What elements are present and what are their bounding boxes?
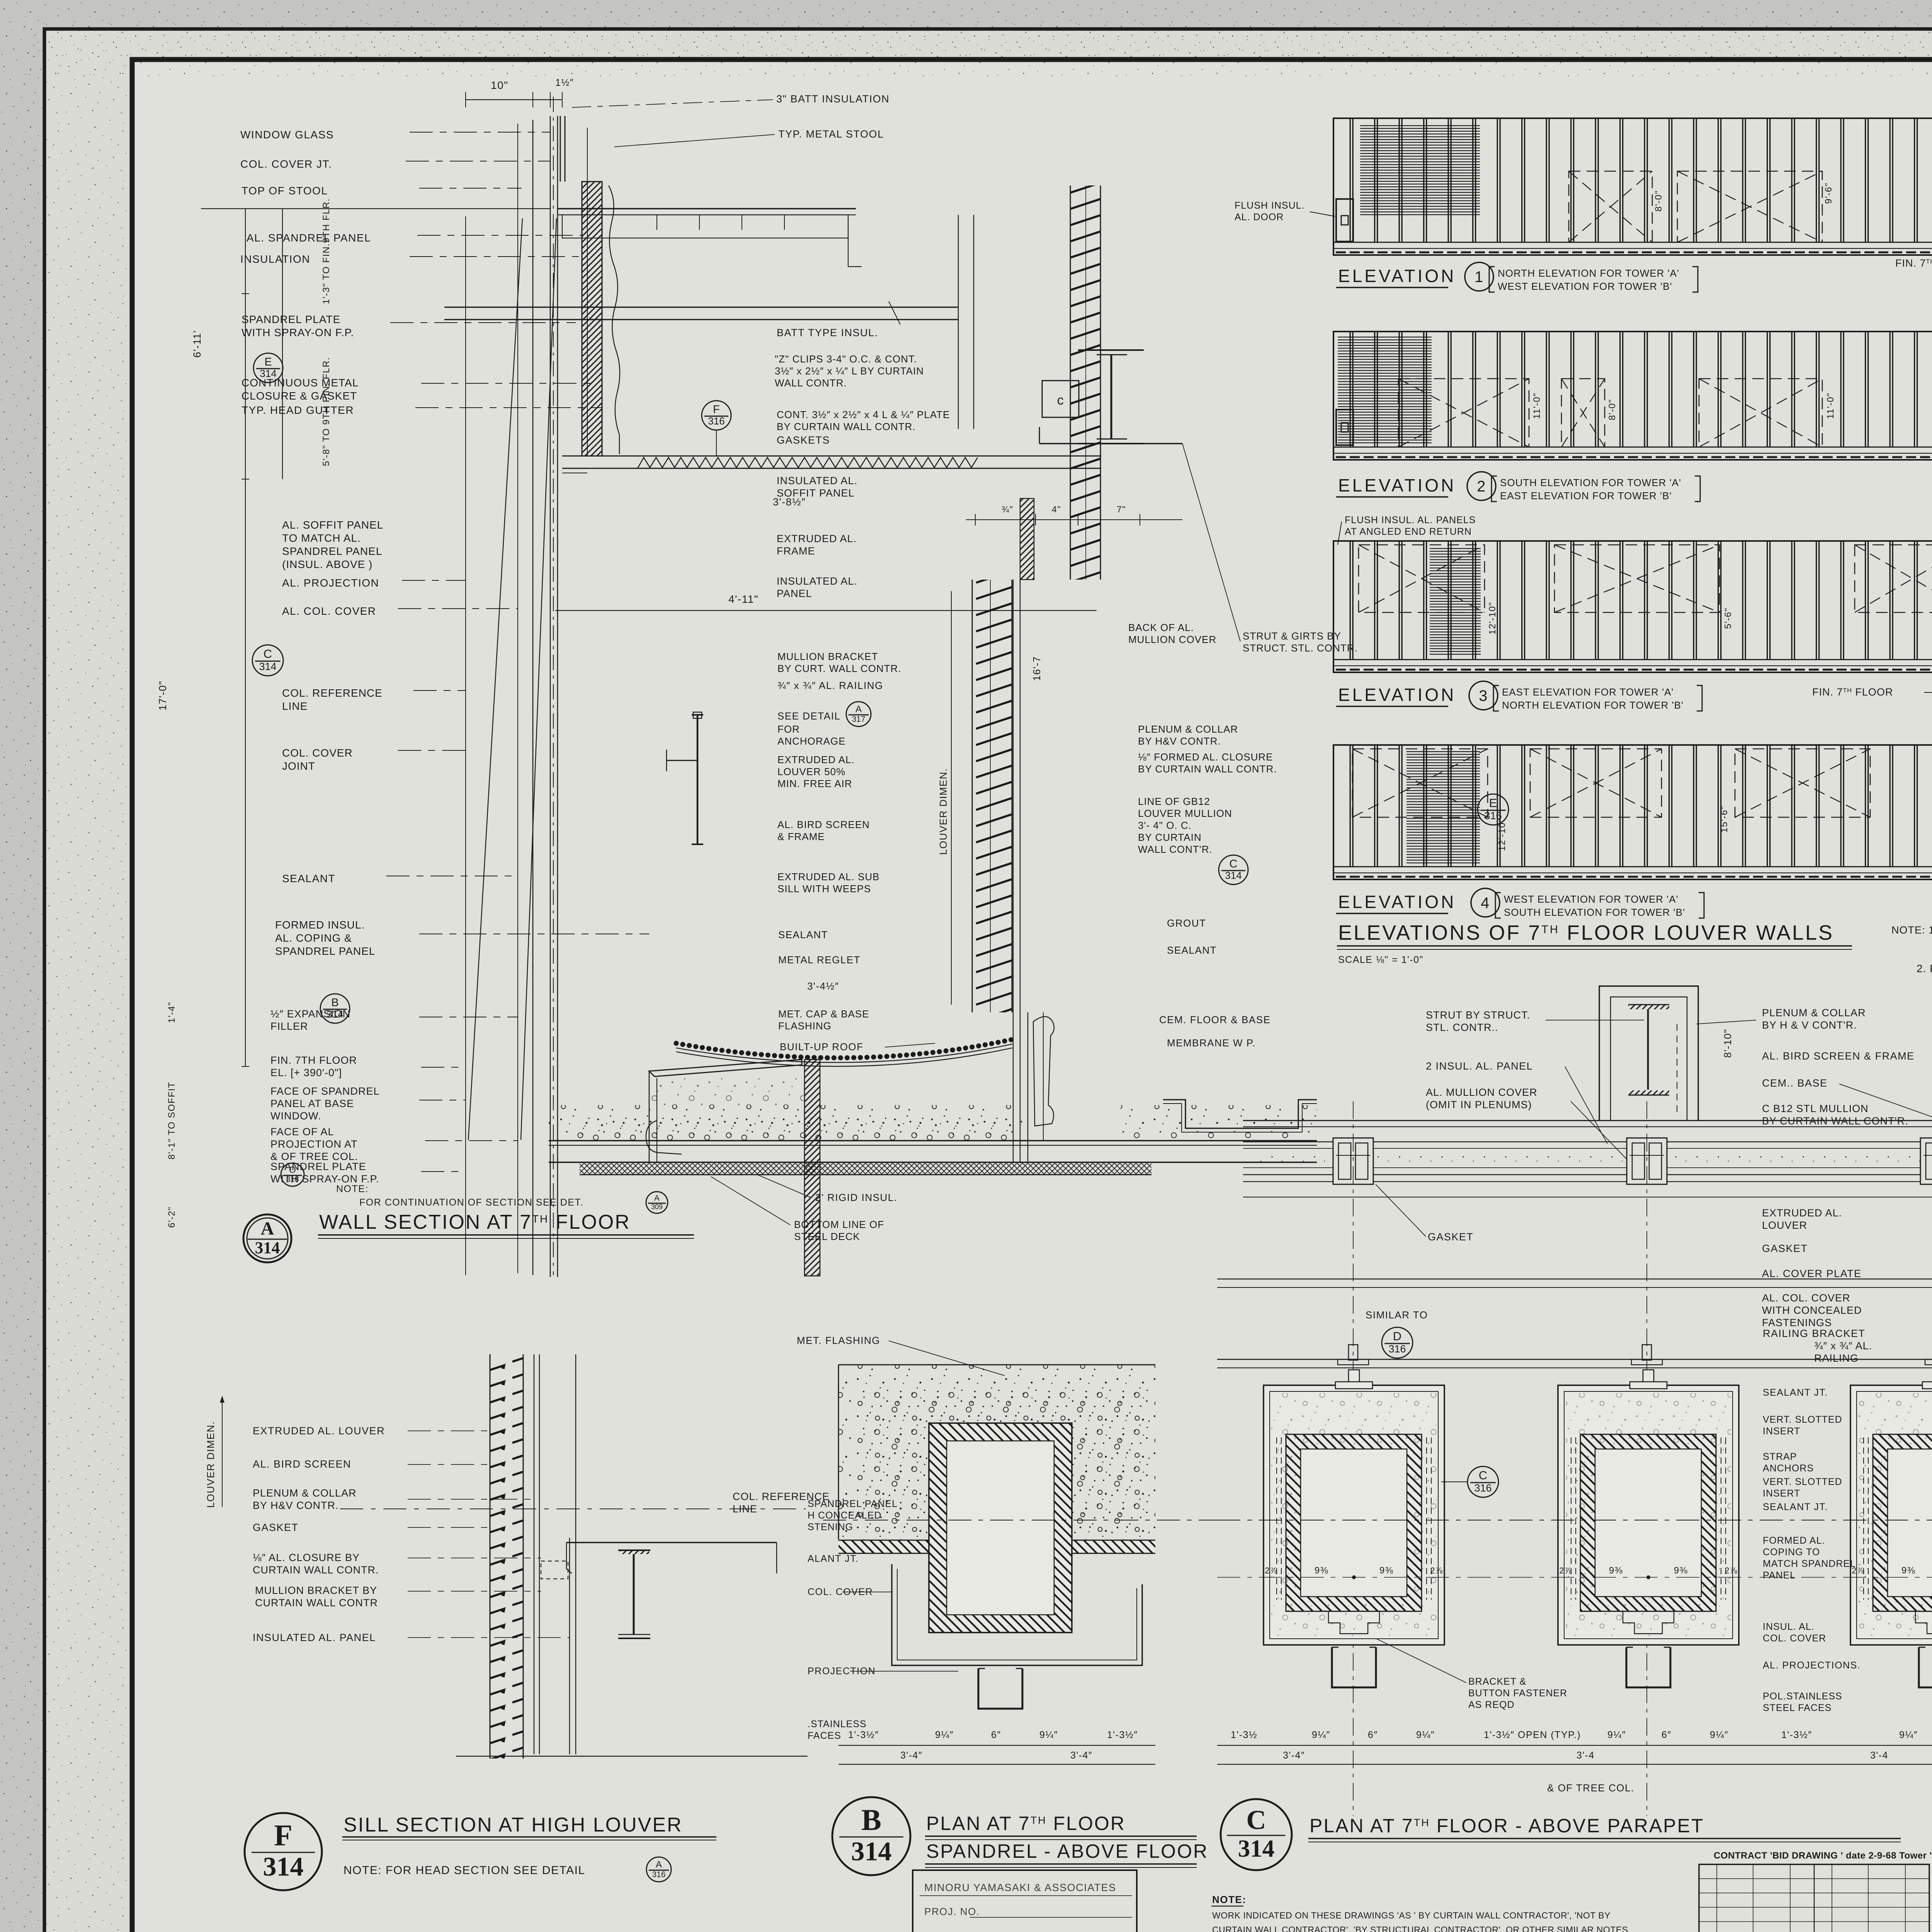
svg-text:318: 318 xyxy=(286,1175,299,1184)
svg-text:MATCH SPANDREL: MATCH SPANDREL xyxy=(1763,1558,1856,1569)
svg-text:7": 7" xyxy=(1117,504,1126,514)
svg-text:309: 309 xyxy=(651,1203,663,1211)
svg-text:EAST ELEVATION FOR TOWER 'B: EAST ELEVATION FOR TOWER 'B' xyxy=(1500,490,1672,502)
detail circle F/316 xyxy=(702,401,731,430)
svg-text:PANEL: PANEL xyxy=(1763,1570,1796,1581)
louver blade strip (section) xyxy=(972,580,1012,1012)
svg-text:SCALE ⅛" = 1'-0": SCALE ⅛" = 1'-0" xyxy=(1338,954,1423,965)
svg-text:FIN. 7TH FLOOR: FIN. 7TH FLOOR xyxy=(270,1054,357,1066)
big detail circle F/314 xyxy=(245,1813,322,1890)
vertical line down from louver to parapet xyxy=(1027,1012,1028,1162)
sealant blob / cap flashing center xyxy=(1033,1017,1054,1126)
svg-text:SOUTH ELEVATION FOR TOWER ': SOUTH ELEVATION FOR TOWER 'B' xyxy=(1504,906,1685,918)
svg-text:9¼″: 9¼″ xyxy=(1312,1730,1330,1740)
svg-text:6″: 6″ xyxy=(991,1730,1001,1740)
received stamp box xyxy=(913,1870,1137,1932)
svg-text:GASKET: GASKET xyxy=(1428,1231,1474,1243)
F small bracket near louver xyxy=(541,1561,568,1579)
svg-text:BATT TYPE INSUL.: BATT TYPE INSUL. xyxy=(777,327,878,338)
svg-text:FASTENINGS: FASTENINGS xyxy=(1762,1317,1832,1328)
svg-text:9⅜: 9⅜ xyxy=(1901,1565,1915,1576)
svg-text:9¼″: 9¼″ xyxy=(1710,1730,1728,1740)
svg-text:2. FOR KEY PLAN SEE DWG A: 2. FOR KEY PLAN SEE DWG A-AB - 316 xyxy=(1917,963,1932,975)
svg-text:3'-4″: 3'-4″ xyxy=(900,1750,922,1761)
svg-text:1'-3" TO FIN.9TH FLR.: 1'-3" TO FIN.9TH FLR. xyxy=(321,198,332,304)
louver dimension arrows xyxy=(951,591,952,1005)
svg-text:8'-1" TO SOFFIT: 8'-1" TO SOFFIT xyxy=(167,1082,177,1159)
svg-text:314: 314 xyxy=(851,1837,892,1867)
detail circle A/309 xyxy=(646,1192,668,1213)
svg-text:EL. [+ 390'-0"]: EL. [+ 390'-0"] xyxy=(270,1067,342,1078)
svg-text:BY H&V CONTR.: BY H&V CONTR. xyxy=(1138,735,1221,747)
svg-text:3'-4: 3'-4 xyxy=(1870,1750,1888,1761)
svg-text:& FRAME: & FRAME xyxy=(777,831,825,842)
svg-text:C: C xyxy=(1479,1469,1487,1482)
svg-text:TYP. METAL STOOL: TYP. METAL STOOL xyxy=(778,128,884,140)
svg-text:CURTAIN WALL CONTR.: CURTAIN WALL CONTR. xyxy=(253,1564,379,1576)
svg-text:F: F xyxy=(713,403,720,416)
svg-text:B: B xyxy=(331,997,338,1009)
svg-text:BUTTON FASTENER: BUTTON FASTENER xyxy=(1468,1688,1567,1699)
svg-text:1'-3½″: 1'-3½″ xyxy=(1107,1730,1138,1740)
svg-text:EAST ELEVATION FOR TOWER 'A: EAST ELEVATION FOR TOWER 'A' xyxy=(1502,686,1673,698)
svg-text:BY CURTAIN WALL CONTR.: BY CURTAIN WALL CONTR. xyxy=(777,421,916,432)
svg-text:10": 10" xyxy=(491,79,509,91)
window glass lines at top xyxy=(560,116,561,182)
svg-text:2⅞: 2⅞ xyxy=(1725,1566,1738,1575)
middle plan: plenum box with I-beam strut xyxy=(1599,986,1698,1121)
svg-text:GROUT: GROUT xyxy=(1167,917,1206,929)
elevation band 2 xyxy=(1333,332,1932,460)
svg-text:1: 1 xyxy=(1475,269,1484,286)
svg-text:F: F xyxy=(274,1818,293,1852)
right side vertical plenum lines xyxy=(958,215,959,429)
svg-text:COL. REFERENCE: COL. REFERENCE xyxy=(282,687,383,699)
svg-text:CONTINUOUS METAL: CONTINUOUS METAL xyxy=(241,377,359,389)
lower horizontal soffit panel with batt insulation zigzag xyxy=(562,456,1101,457)
dim line 3-8half row xyxy=(966,519,1182,520)
svg-text:SPANDREL PANEL: SPANDREL PANEL xyxy=(808,1498,898,1509)
svg-text:METAL REGLET: METAL REGLET xyxy=(778,954,861,966)
cem floor and base trough right xyxy=(1163,1100,1317,1128)
svg-text:3" BATT INSULATION: 3" BATT INSULATION xyxy=(776,93,889,105)
svg-text:3'- 4" O. C.: 3'- 4" O. C. xyxy=(1138,820,1192,831)
svg-text:POL.STAINLESS: POL.STAINLESS xyxy=(1763,1691,1842,1702)
wall section A: long vertical construction lines xyxy=(465,216,466,1275)
svg-text:2 INSUL. AL. PANEL: 2 INSUL. AL. PANEL xyxy=(1426,1060,1533,1072)
svg-text:SOUTH ELEVATION FOR TOWER ': SOUTH ELEVATION FOR TOWER 'A' xyxy=(1500,477,1681,488)
svg-text:GASKET: GASKET xyxy=(253,1522,299,1533)
svg-text:(INSUL. ABOVE ): (INSUL. ABOVE ) xyxy=(282,558,372,570)
svg-text:FOR: FOR xyxy=(777,723,800,735)
F sill section: louver blade strip xyxy=(490,1354,523,1759)
svg-text:STRAP: STRAP xyxy=(1763,1451,1797,1462)
svg-text:LINE OF GB12: LINE OF GB12 xyxy=(1138,796,1210,807)
svg-text:C: C xyxy=(264,647,272,661)
head gutter hook at panel base xyxy=(646,1121,682,1154)
svg-text:EXTRUDED AL.: EXTRUDED AL. xyxy=(1762,1207,1842,1219)
svg-text:FLUSH INSUL. AL. PANELS: FLUSH INSUL. AL. PANELS xyxy=(1345,515,1476,526)
svg-text:SPANDREL PLATE: SPANDREL PLATE xyxy=(241,313,340,325)
svg-text:WITH SPRAY-ON F.P.: WITH SPRAY-ON F.P. xyxy=(241,327,354,338)
small hatched sill bar below soffit xyxy=(1020,498,1034,580)
plan B concrete mass xyxy=(838,1365,1155,1539)
svg-text:314: 314 xyxy=(263,1852,304,1882)
svg-text:BACK OF AL.: BACK OF AL. xyxy=(1128,622,1194,633)
svg-text:⅛″ AL. CLOSURE BY: ⅛″ AL. CLOSURE BY xyxy=(253,1552,360,1563)
svg-text:EXTRUDED AL.: EXTRUDED AL. xyxy=(777,533,857,544)
svg-text:AL. COL. COVER: AL. COL. COVER xyxy=(1762,1292,1850,1304)
svg-text:MINORU YAMASAKI & ASSOCIATES: MINORU YAMASAKI & ASSOCIATES xyxy=(924,1882,1116,1893)
svg-text:E: E xyxy=(1489,796,1497,810)
svg-text:316: 316 xyxy=(1474,1482,1492,1494)
svg-text:C B12 STL MULLION: C B12 STL MULLION xyxy=(1762,1103,1869,1114)
svg-text:2⅞: 2⅞ xyxy=(1559,1566,1572,1575)
svg-text:AL. COPING &: AL. COPING & xyxy=(275,932,352,944)
detail circle A/317 xyxy=(846,702,871,726)
svg-text:SEE DETAIL: SEE DETAIL xyxy=(777,710,840,722)
built-up roof dotted gravel arc xyxy=(676,1039,1012,1058)
svg-text:317: 317 xyxy=(852,715,865,724)
svg-text:6″: 6″ xyxy=(1368,1730,1378,1740)
svg-text:EXTRUDED AL. SUB: EXTRUDED AL. SUB xyxy=(777,871,880,883)
svg-text:BY CURT. WALL CONTR.: BY CURT. WALL CONTR. xyxy=(777,663,901,674)
svg-text:BOTTOM LINE OF: BOTTOM LINE OF xyxy=(794,1219,884,1230)
svg-text:B: B xyxy=(861,1803,881,1837)
big detail circle B/314 xyxy=(832,1797,910,1875)
svg-text:2⅞: 2⅞ xyxy=(1265,1566,1278,1575)
svg-text:11'-0": 11'-0" xyxy=(1532,393,1542,419)
F I-beam xyxy=(618,1549,650,1551)
svg-text:3: 3 xyxy=(1479,687,1488,704)
louver vertical continues below xyxy=(1013,580,1014,1163)
svg-text:WALL SECTION AT 7TH FLOOR: WALL SECTION AT 7TH FLOOR xyxy=(319,1211,631,1233)
svg-text:15'-6": 15'-6" xyxy=(1719,806,1730,833)
svg-text:316: 316 xyxy=(1484,810,1502,821)
svg-text:CLOSURE & GASKET: CLOSURE & GASKET xyxy=(241,390,357,402)
elevation band 1 xyxy=(1333,118,1932,255)
svg-text:1'-4": 1'-4" xyxy=(167,1002,177,1023)
svg-text:WORK INDICATED ON THESE DR: WORK INDICATED ON THESE DRAWINGS 'AS ' B… xyxy=(1212,1910,1611,1920)
svg-text:MEMBRANE W P.: MEMBRANE W P. xyxy=(1167,1037,1256,1049)
svg-text:CEM.. BASE: CEM.. BASE xyxy=(1762,1077,1828,1089)
centerlines dropping to plan C xyxy=(1353,1101,1354,1816)
svg-text:STEEL FACES: STEEL FACES xyxy=(1763,1702,1832,1713)
svg-text:PROJECTION AT: PROJECTION AT xyxy=(270,1138,358,1150)
svg-text:PLENUM & COLLAR: PLENUM & COLLAR xyxy=(1138,723,1238,735)
svg-text:(OMIT IN PLENUMS): (OMIT IN PLENUMS) xyxy=(1426,1099,1532,1111)
svg-text:PLENUM & COLLAR: PLENUM & COLLAR xyxy=(253,1487,357,1499)
svg-text:1'-3½: 1'-3½ xyxy=(1231,1730,1257,1740)
roof deck double lines xyxy=(549,1140,1317,1141)
svg-text:NOTE:: NOTE: xyxy=(336,1184,369,1194)
svg-text:¾″: ¾″ xyxy=(1002,504,1013,514)
svg-text:AL. SOFFIT PANEL: AL. SOFFIT PANEL xyxy=(282,519,383,531)
left vertical dimension lines xyxy=(245,209,246,1066)
insulation wavy outline right of panel xyxy=(609,185,620,454)
detail circle C/314 right xyxy=(1219,855,1248,884)
svg-text:FACE OF SPANDREL: FACE OF SPANDREL xyxy=(270,1085,380,1097)
svg-text:PROJ. NO.: PROJ. NO. xyxy=(924,1906,980,1917)
paper noise speckle (margins only, cheap) xyxy=(0,0,1932,60)
plan C detail circle C/316 xyxy=(1468,1466,1498,1497)
plan C dims xyxy=(1217,1745,1932,1746)
svg-text:9¼″: 9¼″ xyxy=(1039,1730,1058,1740)
girt angle below I-beam xyxy=(1039,443,1182,444)
elevation band 3 xyxy=(1333,541,1932,672)
svg-text:ELEVATION: ELEVATION xyxy=(1338,266,1456,286)
svg-text:316: 316 xyxy=(652,1870,665,1879)
svg-text:6'-11': 6'-11' xyxy=(191,330,203,357)
svg-text:316: 316 xyxy=(708,415,724,427)
svg-text:EXTRUDED AL.: EXTRUDED AL. xyxy=(777,754,855,765)
svg-text:1'-3½″ OPEN (TYP.): 1'-3½″ OPEN (TYP.) xyxy=(1484,1730,1581,1740)
detail circle E/316 on band 4 xyxy=(1478,794,1509,825)
svg-text:9⅜: 9⅜ xyxy=(1609,1565,1623,1576)
dimension 4-11 line xyxy=(555,610,1097,611)
svg-text:314: 314 xyxy=(259,661,276,672)
svg-text:VERT. SLOTTED: VERT. SLOTTED xyxy=(1763,1414,1842,1425)
svg-text:MET. CAP & BASE: MET. CAP & BASE xyxy=(778,1008,869,1020)
plenum collar box xyxy=(1042,381,1079,417)
svg-text:¾″ x ¾″ AL. RAILING: ¾″ x ¾″ AL. RAILING xyxy=(777,680,883,691)
svg-text:12'-10": 12'-10" xyxy=(1487,602,1498,635)
svg-text:MULLION COVER: MULLION COVER xyxy=(1128,634,1216,645)
svg-text:E: E xyxy=(264,356,272,368)
svg-text:A: A xyxy=(855,704,862,714)
plan C col ref dash line across xyxy=(1217,1520,1932,1520)
rigid insul cross-hatch strip xyxy=(580,1163,1151,1175)
svg-text:C: C xyxy=(1246,1805,1266,1835)
svg-text:CONT. 3½″ x 2½″ x 4 L & ¼″: CONT. 3½″ x 2½″ x 4 L & ¼″ PLATE xyxy=(777,409,950,420)
svg-text:COL. COVER JT.: COL. COVER JT. xyxy=(240,158,332,170)
svg-text:A: A xyxy=(261,1218,274,1239)
svg-text:5'-6": 5'-6" xyxy=(1723,607,1733,629)
svg-text:COL. COVER: COL. COVER xyxy=(282,747,353,759)
svg-text:D: D xyxy=(1393,1330,1401,1343)
middle plan: long louver wall band xyxy=(1243,1120,1932,1121)
detail circle O/318 xyxy=(281,1163,304,1186)
svg-text:MIN. FREE AIR: MIN. FREE AIR xyxy=(777,778,852,789)
svg-text:H CONCEALED: H CONCEALED xyxy=(808,1510,882,1521)
svg-text:FOR CONTINUATION OF SECTION: FOR CONTINUATION OF SECTION SEE DET. xyxy=(359,1197,583,1208)
svg-text:NORTH ELEVATION FOR TOWER ': NORTH ELEVATION FOR TOWER 'B' xyxy=(1502,699,1684,711)
svg-text:JOINT: JOINT xyxy=(282,760,315,772)
long rail lines above plan C xyxy=(1217,1279,1932,1279)
svg-text:ELEVATION: ELEVATION xyxy=(1338,685,1456,705)
F bottom sill line xyxy=(456,1756,808,1757)
svg-text:AL. PROJECTION: AL. PROJECTION xyxy=(282,577,379,589)
svg-text:PLAN AT 7TH FLOOR - ABOVE P: PLAN AT 7TH FLOOR - ABOVE PARAPET xyxy=(1310,1815,1704,1837)
railing T bracket xyxy=(697,715,699,844)
svg-text:LOUVER DIMEN.: LOUVER DIMEN. xyxy=(205,1421,216,1508)
svg-text:STL. CONTR..: STL. CONTR.. xyxy=(1426,1022,1498,1033)
svg-text:SILL SECTION AT HIGH LOUVE: SILL SECTION AT HIGH LOUVER xyxy=(344,1814,683,1836)
svg-text:FRAME: FRAME xyxy=(777,545,815,557)
svg-text:9¼″: 9¼″ xyxy=(935,1730,954,1740)
svg-text:STRUCT. STL. CONTR.: STRUCT. STL. CONTR. xyxy=(1243,642,1358,654)
svg-text:AL. BIRD SCREEN: AL. BIRD SCREEN xyxy=(777,819,870,830)
plan B column stub xyxy=(978,1668,1022,1709)
svg-text:BY CURTAIN WALL CONT'R.: BY CURTAIN WALL CONT'R. xyxy=(1762,1115,1908,1127)
svg-text:SEALANT JT.: SEALANT JT. xyxy=(1763,1387,1828,1398)
svg-text:STENING: STENING xyxy=(808,1522,853,1532)
svg-text:9¼″: 9¼″ xyxy=(1607,1730,1626,1740)
svg-text:316: 316 xyxy=(1388,1343,1406,1355)
svg-text:COL. COVER: COL. COVER xyxy=(1763,1633,1826,1644)
svg-text:ANCHORAGE: ANCHORAGE xyxy=(777,735,846,747)
F steel shelf top flange xyxy=(566,1542,777,1543)
big detail circle A/314 xyxy=(243,1214,291,1262)
svg-text:2' RIGID INSUL.: 2' RIGID INSUL. xyxy=(815,1192,897,1203)
concrete speckle at roof slab xyxy=(549,1105,1012,1141)
tapered column face slanted lines xyxy=(468,218,522,1140)
svg-text:WEST ELEVATION FOR TOWER 'A: WEST ELEVATION FOR TOWER 'A' xyxy=(1504,893,1679,905)
svg-text:TO MATCH AL.: TO MATCH AL. xyxy=(282,532,361,544)
svg-text:1½″: 1½″ xyxy=(555,77,574,88)
svg-text:FORMED AL.: FORMED AL. xyxy=(1763,1535,1825,1546)
svg-text:AL. BIRD SCREEN & FRAME: AL. BIRD SCREEN & FRAME xyxy=(1762,1050,1915,1062)
svg-text:MULLION BRACKET: MULLION BRACKET xyxy=(777,651,878,662)
svg-text:ELEVATION: ELEVATION xyxy=(1338,892,1456,912)
center dash line of column xyxy=(553,97,554,1275)
detail circle D/316 xyxy=(1382,1327,1413,1358)
svg-text:9¼″: 9¼″ xyxy=(1899,1730,1918,1740)
svg-text:4": 4" xyxy=(1052,504,1061,514)
svg-text:RAILING: RAILING xyxy=(1814,1352,1859,1364)
top of stool horizontal line xyxy=(201,208,550,209)
detail circle C/314 left xyxy=(252,645,283,676)
svg-text:c: c xyxy=(1057,393,1065,408)
svg-text:LOUVER DIMEN.: LOUVER DIMEN. xyxy=(937,768,949,855)
svg-text:ELEVATION: ELEVATION xyxy=(1338,475,1456,495)
svg-text:FILLER: FILLER xyxy=(270,1020,308,1032)
svg-text:2: 2 xyxy=(1477,478,1486,495)
parapet coping sloped top xyxy=(649,1060,802,1077)
F col ref dash line xyxy=(340,1509,806,1509)
svg-text:SEALANT JT.: SEALANT JT. xyxy=(1763,1502,1828,1512)
svg-text:MULLION BRACKET BY: MULLION BRACKET BY xyxy=(255,1585,377,1596)
svg-text:17'-0": 17'-0" xyxy=(157,680,168,711)
svg-text:½″ EXPANSION: ½″ EXPANSION xyxy=(270,1008,350,1020)
svg-text:PANEL AT BASE: PANEL AT BASE xyxy=(270,1098,354,1109)
svg-text:STEEL DECK: STEEL DECK xyxy=(794,1231,860,1242)
svg-text:WITH CONCEALED: WITH CONCEALED xyxy=(1762,1304,1862,1316)
svg-text:SPANDREL - ABOVE FLOOR: SPANDREL - ABOVE FLOOR xyxy=(926,1840,1208,1862)
svg-text:RAILING BRACKET: RAILING BRACKET xyxy=(1763,1328,1866,1339)
F vertical mullion lines xyxy=(534,1354,534,1754)
svg-text:FORMED INSUL.: FORMED INSUL. xyxy=(275,919,365,931)
svg-text:INSERT: INSERT xyxy=(1763,1426,1800,1437)
svg-text:O: O xyxy=(289,1165,296,1175)
svg-text:3'-4″: 3'-4″ xyxy=(1070,1750,1092,1761)
svg-text:4'-11": 4'-11" xyxy=(728,593,759,605)
svg-text:.STAINLESS: .STAINLESS xyxy=(808,1719,867,1730)
plan C three column units xyxy=(1264,1385,1444,1645)
svg-text:NOTE: FOR HEAD SECTION SEE: NOTE: FOR HEAD SECTION SEE DETAIL xyxy=(344,1864,585,1877)
svg-text:PLENUM & COLLAR: PLENUM & COLLAR xyxy=(1762,1007,1866,1019)
svg-text:1'-3½″: 1'-3½″ xyxy=(1781,1730,1812,1740)
svg-text:COPING TO: COPING TO xyxy=(1763,1547,1820,1558)
svg-text:12'-10": 12'-10" xyxy=(1497,818,1507,851)
svg-text:SEALANT: SEALANT xyxy=(778,929,828,940)
svg-text:FACES: FACES xyxy=(808,1730,841,1741)
svg-text:A: A xyxy=(654,1194,660,1203)
svg-text:SPANDREL PANEL: SPANDREL PANEL xyxy=(282,545,382,557)
svg-text:8'-0": 8'-0" xyxy=(1607,399,1617,420)
svg-text:WALL CONT'R.: WALL CONT'R. xyxy=(1138,844,1213,855)
svg-text:NOTE:: NOTE: xyxy=(1212,1894,1246,1905)
svg-text:PANEL: PANEL xyxy=(777,588,812,599)
svg-text:SPANDREL PANEL: SPANDREL PANEL xyxy=(275,945,375,957)
svg-text:CONTRACT 'BID DRAWING ' da: CONTRACT 'BID DRAWING ' date 2-9-68 Towe… xyxy=(1714,1850,1932,1861)
svg-text:SEALANT: SEALANT xyxy=(1167,944,1217,956)
svg-text:NORTH ELEVATION FOR TOWER ': NORTH ELEVATION FOR TOWER 'A' xyxy=(1498,267,1679,279)
svg-text:WALL CONTR.: WALL CONTR. xyxy=(775,377,847,389)
svg-text:ELEVATIONS OF 7TH FLOOR LOU: ELEVATIONS OF 7TH FLOOR LOUVER WALLS xyxy=(1338,921,1834,944)
svg-text:ALANT JT.: ALANT JT. xyxy=(808,1553,859,1564)
svg-text:FIN. 7TH FLOOR: FIN. 7TH FLOOR xyxy=(1812,686,1893,698)
svg-text:9⅜: 9⅜ xyxy=(1674,1565,1688,1576)
svg-text:WEST ELEVATION FOR TOWER 'B': WEST ELEVATION FOR TOWER 'B' xyxy=(1498,281,1672,292)
svg-text:¾″ x ¾″ AL.: ¾″ x ¾″ AL. xyxy=(1814,1340,1872,1352)
svg-text:314: 314 xyxy=(1238,1835,1275,1862)
svg-text:LOUVER: LOUVER xyxy=(1762,1219,1807,1231)
svg-text:NOTE: 1. AREAS MARKED THUS: NOTE: 1. AREAS MARKED THUS xyxy=(1891,924,1932,936)
louver dotted infill xyxy=(1252,1155,1932,1164)
svg-text:3'-4: 3'-4 xyxy=(1577,1750,1595,1761)
top dimension ticks xyxy=(466,99,562,100)
svg-text:INSULATED AL.: INSULATED AL. xyxy=(777,475,857,486)
svg-text:SIMILAR TO: SIMILAR TO xyxy=(1366,1309,1428,1321)
plan B hatched sill band xyxy=(838,1540,1155,1553)
svg-text:AL. MULLION COVER: AL. MULLION COVER xyxy=(1426,1087,1537,1098)
floor slab lines mid height xyxy=(444,306,958,308)
svg-text:STRUT & GIRTS BY: STRUT & GIRTS BY xyxy=(1243,630,1341,642)
svg-text:EXTRUDED AL. LOUVER: EXTRUDED AL. LOUVER xyxy=(253,1425,385,1437)
svg-text:16'-7: 16'-7 xyxy=(1031,656,1043,681)
svg-text:314: 314 xyxy=(255,1239,280,1257)
svg-text:4: 4 xyxy=(1481,895,1490,912)
svg-text:FLUSH INSUL.: FLUSH INSUL. xyxy=(1235,200,1304,211)
svg-text:ANCHORS: ANCHORS xyxy=(1763,1463,1814,1474)
svg-text:9⅜: 9⅜ xyxy=(1379,1565,1393,1576)
svg-text:AL. SPANDREL PANEL: AL. SPANDREL PANEL xyxy=(247,232,371,244)
svg-text:⅛″ FORMED AL. CLOSURE: ⅛″ FORMED AL. CLOSURE xyxy=(1138,751,1273,763)
svg-text:MET. FLASHING: MET. FLASHING xyxy=(797,1335,880,1346)
svg-text:LOUVER MULLION: LOUVER MULLION xyxy=(1138,808,1232,819)
svg-text:BY H & V CONT'R.: BY H & V CONT'R. xyxy=(1762,1019,1857,1031)
svg-text:9⅜: 9⅜ xyxy=(1315,1565,1328,1576)
svg-text:3½″ x 2½″ x ¼″ L BY CURTAIN: 3½″ x 2½″ x ¼″ L BY CURTAIN xyxy=(775,365,924,377)
svg-text:AT ANGLED END RETURN: AT ANGLED END RETURN xyxy=(1345,526,1472,537)
svg-text:3'-4″: 3'-4″ xyxy=(1283,1750,1305,1761)
svg-text:AL. COL. COVER: AL. COL. COVER xyxy=(282,605,376,617)
svg-text:FACE OF AL: FACE OF AL xyxy=(270,1126,334,1138)
svg-text:314: 314 xyxy=(1225,870,1242,881)
svg-text:INSUL. AL.: INSUL. AL. xyxy=(1763,1621,1815,1632)
svg-text:8'-0": 8'-0" xyxy=(1653,190,1664,211)
svg-text:VERT. SLOTTED: VERT. SLOTTED xyxy=(1763,1476,1842,1487)
svg-text:3'-4½″: 3'-4½″ xyxy=(807,980,839,992)
hatched spandrel panel (vertical) xyxy=(582,182,602,456)
svg-text:SILL WITH WEEPS: SILL WITH WEEPS xyxy=(777,883,871,895)
svg-text:CURTAIN WALL CONTR: CURTAIN WALL CONTR xyxy=(255,1597,378,1609)
svg-text:WINDOW GLASS: WINDOW GLASS xyxy=(240,129,334,141)
svg-text:FLASHING: FLASHING xyxy=(778,1020,832,1032)
svg-text:SEALANT: SEALANT xyxy=(282,872,335,884)
svg-text:C: C xyxy=(1230,858,1238,870)
